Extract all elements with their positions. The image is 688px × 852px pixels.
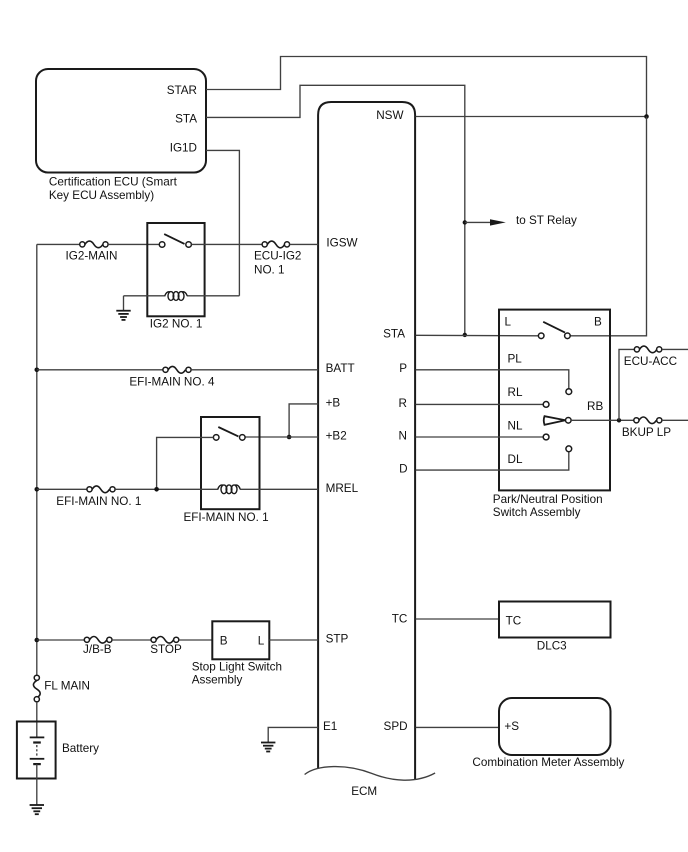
svg-text:N: N <box>399 430 407 443</box>
node BATT branch <box>35 368 40 373</box>
battery BT1 <box>17 722 99 779</box>
wire to ST Relay arrow <box>465 214 577 227</box>
DLC3 box <box>499 602 611 653</box>
fuse IG2-MAIN <box>66 241 118 263</box>
svg-text:Assembly: Assembly <box>192 674 243 687</box>
fuse FL MAIN vertical <box>33 675 90 702</box>
svg-text:RL: RL <box>508 386 523 399</box>
svg-text:ECU-ACC: ECU-ACC <box>624 355 677 368</box>
svg-text:Park/Neutral Position: Park/Neutral Position <box>493 493 603 506</box>
node STP branch left bus <box>35 638 40 643</box>
wire STAR from ECU to top right vertical <box>206 57 647 117</box>
contact NL <box>543 434 549 440</box>
svg-text:NO. 1: NO. 1 <box>254 263 285 276</box>
svg-text:MREL: MREL <box>326 482 359 495</box>
svg-text:STOP: STOP <box>150 643 182 656</box>
wire relay to ECU-IG2 fuse <box>191 243 262 245</box>
ground below battery <box>30 805 44 814</box>
wire between fuses <box>112 639 151 641</box>
wire battery to ground <box>36 764 38 805</box>
wire BATT row <box>37 369 163 371</box>
wire coil to ECM MREL <box>240 488 318 490</box>
svg-text:BATT: BATT <box>326 362 355 375</box>
svg-text:IG2-MAIN: IG2-MAIN <box>66 250 118 263</box>
Certification ECU (Smart Key ECU Assembly) box U1 <box>36 69 206 202</box>
svg-text:RB: RB <box>587 400 603 413</box>
svg-text:IG2 NO. 1: IG2 NO. 1 <box>150 318 203 331</box>
svg-text:STA: STA <box>175 112 197 125</box>
svg-text:SPD: SPD <box>384 720 408 733</box>
svg-text:STAR: STAR <box>167 84 197 97</box>
fuse EFI-MAIN NO. 4 <box>129 366 215 388</box>
wire STA from ECU down to ST relay branch and STA row <box>206 85 465 335</box>
fuse STOP <box>150 637 182 657</box>
svg-text:B: B <box>220 635 228 648</box>
svg-text:Key ECU Assembly): Key ECU Assembly) <box>49 189 154 202</box>
wire RB row out to BKUP LP <box>571 419 634 421</box>
wire stop light switch to ECM STP <box>269 639 318 641</box>
wire IG1D from ECU down to IG2 relay coil <box>206 150 239 295</box>
wire RB branch up to ECU-ACC <box>619 349 634 420</box>
node relay coil junction <box>154 487 159 492</box>
fuse ECU-ACC <box>624 346 677 368</box>
switch contacts IG2 relay <box>159 234 191 247</box>
wire fuse to relay contact <box>108 243 159 245</box>
fuse ECU-IG2 NO. 1 <box>254 241 301 276</box>
Combination Meter Assembly box <box>472 698 624 769</box>
svg-text:E1: E1 <box>323 720 337 733</box>
svg-text:L: L <box>505 316 512 329</box>
node NSW junction <box>644 114 649 119</box>
ECM torn bottom wave <box>305 767 436 781</box>
svg-text:TC: TC <box>392 613 408 626</box>
svg-text:Combination Meter Assembly: Combination Meter Assembly <box>472 756 624 769</box>
svg-text:PL: PL <box>508 353 523 366</box>
switch contacts EFI-MAIN relay <box>213 427 245 440</box>
ground for IG2 relay coil <box>116 296 130 320</box>
contact RL <box>543 402 549 408</box>
switch contacts L-B <box>538 322 570 339</box>
wire ECU-ACC to right edge <box>662 348 688 350</box>
wire IGSW row left bus to ECM <box>37 243 80 245</box>
svg-text:L: L <box>258 635 265 648</box>
wire STA row ECM to P/N switch <box>416 334 539 337</box>
svg-text:Switch Assembly: Switch Assembly <box>493 506 581 519</box>
wire D row to DL contact <box>416 452 569 470</box>
node RB junction <box>617 418 621 422</box>
relay EFI-MAIN NO. 1 <box>184 417 269 524</box>
svg-text:NL: NL <box>508 419 523 432</box>
svg-text:+B: +B <box>326 397 341 410</box>
svg-text:TC: TC <box>506 614 522 627</box>
fuse J/B-B <box>83 637 112 657</box>
svg-text:ECU-IG2: ECU-IG2 <box>254 250 301 263</box>
wire NSW row <box>416 116 647 118</box>
svg-text:D: D <box>399 463 407 476</box>
wire fuse to coil <box>115 488 218 490</box>
node +B2 junction <box>287 435 292 440</box>
svg-text:EFI-MAIN NO. 1: EFI-MAIN NO. 1 <box>184 511 269 524</box>
wire right vertical to P/N switch B terminal <box>570 117 646 336</box>
wire fuse to stop light switch <box>179 639 213 641</box>
svg-text:NSW: NSW <box>376 109 403 122</box>
svg-text:J/B-B: J/B-B <box>83 643 112 656</box>
contact PL <box>566 389 572 395</box>
contact RB common <box>566 418 572 424</box>
wire STP row <box>37 639 85 641</box>
svg-text:to ST Relay: to ST Relay <box>516 214 577 227</box>
svg-text:+B2: +B2 <box>326 430 347 443</box>
wire fuse to ECM IGSW <box>290 243 319 245</box>
ECM main box U2 (open bottom) <box>305 102 436 798</box>
ECM pin labels <box>323 109 408 733</box>
wire E1 to ground <box>268 727 318 742</box>
Stop Light Switch Assembly box <box>192 621 282 686</box>
wire fuse to ECM BATT <box>191 369 318 371</box>
wire SPD row <box>416 726 499 728</box>
relay IG2 NO. 1 <box>147 223 204 331</box>
wire BKUP LP to right edge <box>662 419 688 421</box>
svg-text:DL: DL <box>508 453 523 466</box>
wire MREL row <box>37 488 87 490</box>
svg-text:B: B <box>594 316 602 329</box>
node MREL junction left bus <box>35 487 40 492</box>
svg-text:ECM: ECM <box>351 785 377 798</box>
svg-text:R: R <box>399 397 407 410</box>
svg-text:P: P <box>399 362 407 375</box>
svg-text:Stop Light Switch: Stop Light Switch <box>192 660 282 673</box>
node to-ST-Relay junction <box>463 220 467 224</box>
ground E1 <box>261 743 275 752</box>
svg-text:IGSW: IGSW <box>326 236 357 249</box>
svg-text:+S: +S <box>504 720 519 733</box>
wire TC row <box>416 618 499 620</box>
svg-text:Certification ECU (Smart: Certification ECU (Smart <box>49 176 178 189</box>
svg-text:IG1D: IG1D <box>170 142 197 155</box>
svg-text:EFI-MAIN NO. 1: EFI-MAIN NO. 1 <box>56 495 141 508</box>
wire switch feed from MREL node <box>157 437 214 489</box>
svg-text:BKUP LP: BKUP LP <box>622 426 671 439</box>
svg-text:EFI-MAIN NO. 4: EFI-MAIN NO. 4 <box>129 375 215 388</box>
rotor wedge RB <box>544 416 566 425</box>
wire +B branch <box>289 404 318 437</box>
svg-text:DLC3: DLC3 <box>537 640 567 653</box>
Park/Neutral Position Switch Assembly box <box>493 310 610 519</box>
svg-text:STP: STP <box>326 633 349 646</box>
wire left bus vertical <box>36 244 38 675</box>
wire N row to NL contact <box>416 436 544 438</box>
wire P row to PL contact <box>416 370 569 389</box>
fuse EFI-MAIN NO. 1 <box>56 486 141 508</box>
svg-text:Battery: Battery <box>62 742 99 755</box>
wire IG2 relay coil row with ground <box>124 295 166 297</box>
coil EFI-MAIN relay <box>218 485 240 494</box>
svg-text:FL MAIN: FL MAIN <box>44 680 90 693</box>
wire R row to RL contact <box>416 403 544 405</box>
wire bus to battery <box>36 702 38 737</box>
contact DL <box>566 446 572 452</box>
svg-text:STA: STA <box>383 327 405 340</box>
node STA junction <box>463 333 467 337</box>
fuse BKUP LP <box>622 417 671 439</box>
coil IG2 relay <box>165 292 187 301</box>
wire +B2 row from relay switch to ECM <box>245 436 318 438</box>
